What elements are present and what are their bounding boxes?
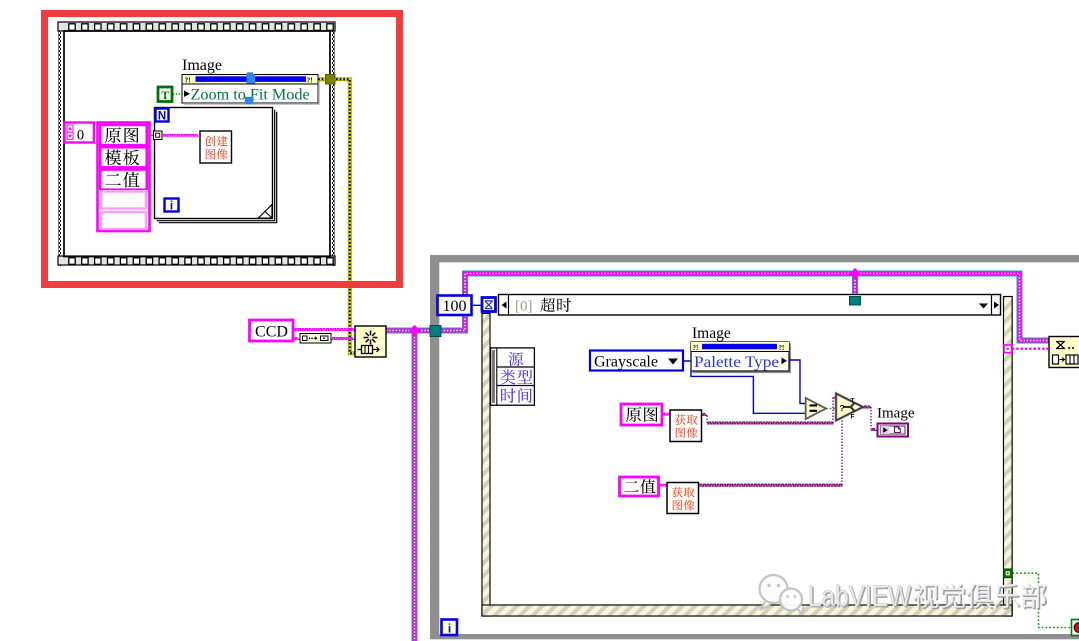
svg-text:Palette Type: Palette Type [694, 354, 779, 371]
svg-text:?!: ?! [693, 344, 699, 352]
svg-text:F: F [851, 413, 855, 420]
svg-text:0: 0 [77, 128, 84, 144]
svg-text:100: 100 [443, 298, 467, 315]
svg-text:T: T [161, 88, 169, 102]
svg-text:i: i [448, 621, 451, 635]
svg-text:i: i [170, 200, 173, 212]
svg-text:CCD: CCD [255, 324, 288, 341]
svg-text:Image: Image [182, 57, 222, 74]
svg-text:?!: ?! [185, 76, 191, 85]
svg-text:?!: ?! [779, 344, 785, 352]
svg-text:LabVIEW: LabVIEW [808, 580, 912, 613]
svg-text:N: N [158, 110, 166, 122]
svg-text:Image: Image [877, 406, 915, 422]
svg-text:T: T [851, 398, 855, 405]
svg-text:Image: Image [692, 325, 731, 342]
svg-text:Grayscale: Grayscale [594, 353, 658, 370]
svg-text:?!: ?! [307, 76, 313, 85]
svg-text:[0]: [0] [515, 299, 533, 315]
svg-text:?: ? [840, 403, 845, 413]
